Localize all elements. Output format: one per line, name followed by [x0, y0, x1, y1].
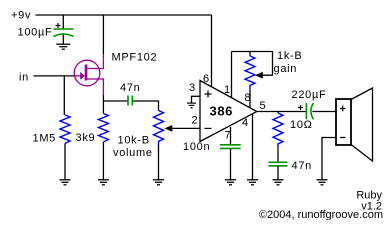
wire volume pot to ground [158, 146, 160, 180]
op-amp U1 386 triangle [200, 81, 257, 142]
ground under pin 4 [247, 180, 258, 185]
potentiometer gain zigzag [245, 56, 255, 90]
svg-text:1k-B: 1k-B [277, 50, 302, 62]
svg-text:+9v: +9v [11, 10, 31, 22]
wire drain to rail [102, 15, 104, 54]
svg-text:220µF: 220µF [292, 89, 327, 101]
capacitor 47n zobel plates [269, 162, 288, 166]
wire 47n to volume pot [133, 101, 159, 111]
ground under 3k9 [98, 180, 109, 185]
wire input to 1M5 [63, 76, 65, 115]
capacitor 220uF plates [306, 103, 313, 119]
wire output pin 5 [257, 111, 306, 113]
svg-text:10k-B: 10k-B [118, 135, 150, 147]
wire 47n zobel to ground [277, 166, 279, 180]
ground under zobel [273, 180, 284, 185]
pin 6 wire [211, 15, 213, 87]
wire top to gain zigzag [249, 52, 251, 57]
pin 3 wire and stub [192, 96, 201, 103]
wire 100uF branch from rail [62, 15, 64, 29]
svg-text:volume: volume [113, 147, 153, 159]
svg-text:MPF102: MPF102 [112, 52, 158, 64]
wire speaker minus to ground [322, 138, 336, 180]
pin 8 wire [249, 90, 251, 108]
svg-text:7: 7 [225, 130, 231, 142]
svg-text:47n: 47n [292, 160, 312, 172]
ground under 100uF [56, 44, 70, 49]
wire 100uF to ground [62, 35, 64, 45]
capacitor 100n plates [220, 145, 241, 149]
potentiometer volume zigzag [154, 111, 164, 147]
wire input [34, 75, 75, 77]
svg-text:1M5: 1M5 [33, 133, 57, 145]
svg-text:4: 4 [242, 117, 248, 129]
op-amp plus input marking [205, 91, 212, 98]
ground under speaker [317, 180, 328, 185]
wiper arrow gain [255, 72, 263, 79]
resistor 10R zigzag [273, 113, 283, 147]
svg-text:gain: gain [274, 63, 298, 75]
transistor Q1 drain lead [86, 54, 103, 69]
ground on pin 3 [187, 103, 196, 108]
svg-text:2: 2 [192, 115, 198, 127]
speaker plus terminal [340, 106, 346, 112]
svg-text:8: 8 [245, 92, 251, 104]
wire 1M5 to ground [64, 144, 66, 180]
transistor Q1 circle [74, 60, 100, 86]
wire source down [102, 95, 104, 114]
resistor 1M5 zigzag [60, 115, 70, 144]
ground under volume pot [153, 180, 164, 185]
speaker body [336, 99, 351, 145]
capacitor C 100uF plus sign [56, 23, 61, 28]
wire 3k9 to ground [102, 142, 104, 180]
wire 100n to ground [230, 148, 232, 179]
wire output junction to 10R [277, 112, 279, 114]
speaker minus terminal [340, 137, 346, 139]
ground under 100n [225, 180, 236, 185]
ground under 1M5 [60, 180, 71, 185]
svg-text:©2004, runoffgroove.com: ©2004, runoffgroove.com [259, 209, 383, 220]
transistor Q1 channel bar [85, 65, 88, 81]
svg-text:3k9: 3k9 [76, 132, 96, 144]
transistor Q1 source lead [86, 79, 103, 95]
potentiometer 1k-B gain loop wires [232, 52, 273, 76]
svg-text:5: 5 [260, 100, 266, 112]
wire source to 47n cap [103, 100, 127, 102]
wire +9v rail [36, 14, 212, 16]
pin 1 wire [231, 52, 233, 99]
transistor Q1 gate lead and arrow [75, 75, 82, 77]
wiper arrow volume to pin 2 [172, 127, 201, 129]
svg-text:47n: 47n [120, 82, 140, 94]
resistor 3k9 zigzag [98, 114, 108, 143]
svg-text:1: 1 [224, 84, 230, 96]
capacitor C 100uF plates [54, 29, 74, 37]
svg-text:10Ω: 10Ω [290, 119, 313, 131]
pin 4 wire [252, 114, 254, 180]
svg-text:386: 386 [210, 104, 234, 119]
speaker cone [351, 88, 373, 161]
svg-text:in: in [19, 72, 29, 84]
op-amp minus input marking [205, 127, 212, 129]
wire 10R to 47n [277, 147, 279, 162]
capacitor 47n input plates [128, 96, 132, 106]
pin 7 wire [230, 127, 232, 145]
svg-text:3: 3 [189, 82, 195, 94]
svg-text:100n: 100n [183, 141, 210, 153]
svg-text:100µF: 100µF [18, 27, 53, 39]
wire 220uF to speaker [313, 111, 337, 113]
svg-text:6: 6 [203, 73, 209, 85]
capacitor 220uF plus sign [298, 105, 303, 110]
